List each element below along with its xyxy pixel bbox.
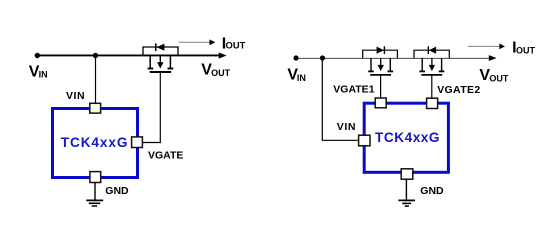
node: left rail junction to VIN pin bbox=[93, 53, 98, 58]
wire: right main rail VIN to VOUT bbox=[296, 55, 497, 61]
svg-text:VIN: VIN bbox=[337, 121, 356, 133]
svg-text:VGATE1: VGATE1 bbox=[333, 84, 374, 96]
svg-text:VGATE: VGATE bbox=[148, 149, 183, 161]
svg-text:IOUT: IOUT bbox=[512, 39, 535, 56]
svg-text:TCK4xxG: TCK4xxG bbox=[61, 135, 129, 150]
wire: left main rail VIN to VOUT bbox=[37, 53, 226, 59]
transistor Q3: body diode symbol (pointing left) bbox=[428, 46, 436, 54]
transistor Q2: gate line bbox=[370, 74, 391, 76]
IC U1: TCK4xxG box (left) bbox=[53, 109, 138, 178]
transistor Q3: gate line bbox=[421, 74, 442, 76]
transistor Q2: drain stub and contact bbox=[368, 58, 374, 71]
pin: U1 VGATE pin square bbox=[132, 137, 143, 148]
node: right VIN input node bbox=[293, 55, 298, 60]
transistor Q2: body arrow (down) bbox=[378, 58, 384, 71]
transistor Q1: gate line bbox=[150, 71, 171, 73]
svg-text:GND: GND bbox=[420, 185, 444, 197]
transistor Q1: body arrow (down) bbox=[157, 56, 163, 69]
svg-text:VOUT: VOUT bbox=[479, 67, 508, 84]
wire: Q1 gate lead down and left to VGATE pin bbox=[142, 73, 160, 143]
transistor Q3: body diode loop bbox=[414, 50, 449, 58]
ground symbol (right) bbox=[398, 179, 415, 206]
wire: junction down to VIN pin bbox=[95, 56, 97, 105]
arrow IOUT (left, gray) bbox=[179, 39, 216, 45]
svg-text:VOUT: VOUT bbox=[201, 62, 230, 79]
wire: Q2 gate lead down to VGATE1 pin bbox=[380, 76, 382, 99]
svg-text:TCK4xxG: TCK4xxG bbox=[375, 130, 440, 145]
pin: U2 GND pin square bbox=[401, 169, 413, 179]
transistor Q1: body diode symbol (pointing left) bbox=[156, 43, 165, 51]
transistor Q3: drain stub and contact bbox=[419, 58, 425, 71]
node: right rail junction to VIN pin bbox=[320, 55, 325, 60]
pin: U1 VIN pin square bbox=[90, 103, 101, 113]
IC U2: TCK4xxG box (right) bbox=[364, 103, 448, 172]
transistor Q2: body diode symbol (pointing right) bbox=[377, 46, 385, 54]
pin: U1 GND pin square bbox=[90, 172, 101, 183]
transistor Q1: body diode loop bbox=[143, 47, 178, 56]
svg-text:IOUT: IOUT bbox=[222, 35, 246, 52]
pin: U2 VGATE1 pin square bbox=[375, 98, 386, 108]
pin: U2 VIN pin square bbox=[359, 135, 370, 146]
node: left VIN input node bbox=[35, 53, 40, 58]
wire: Q3 gate lead down to VGATE2 pin bbox=[431, 76, 433, 99]
wire: junction down and right to U2 VIN pin bbox=[322, 58, 358, 140]
svg-text:VIN: VIN bbox=[287, 67, 305, 84]
svg-text:VIN: VIN bbox=[29, 63, 48, 80]
transistor Q2: body diode loop bbox=[363, 50, 398, 58]
pin: U2 VGATE2 pin square bbox=[427, 98, 438, 108]
transistor Q2: source stub and contact bbox=[388, 58, 394, 71]
svg-text:GND: GND bbox=[105, 185, 129, 197]
svg-text:VGATE2: VGATE2 bbox=[437, 84, 480, 96]
transistor Q1: source stub and contact bbox=[168, 56, 174, 69]
transistor Q3: source stub and contact bbox=[439, 58, 445, 71]
arrow IOUT (right, gray) bbox=[468, 44, 505, 50]
transistor Q1: drain stub and contact bbox=[148, 56, 154, 69]
ground symbol (left) bbox=[86, 183, 103, 207]
svg-text:VIN: VIN bbox=[66, 90, 85, 102]
transistor Q3: body arrow (down) bbox=[429, 58, 435, 71]
